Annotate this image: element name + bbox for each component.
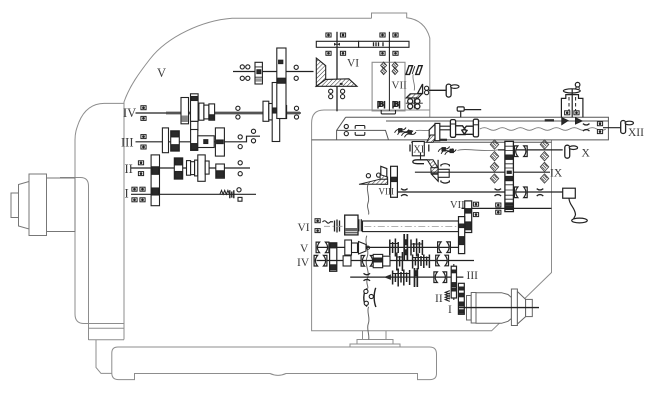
clamp XII bbox=[621, 121, 634, 134]
gears IV right g6-g9 bbox=[263, 83, 287, 142]
bearings shaft I left bbox=[132, 187, 137, 191]
vertical clutch shaft XI top bbox=[561, 82, 583, 117]
head top step and right corner bbox=[372, 13, 430, 117]
strip2 line bbox=[411, 141, 552, 143]
gear block shaft IV g1 bbox=[181, 98, 189, 124]
svg-text:I: I bbox=[125, 187, 129, 201]
center gear cluster V bbox=[390, 234, 423, 261]
shaft III bbox=[136, 136, 261, 142]
bar bearings bbox=[326, 33, 331, 37]
center cluster IV bbox=[397, 252, 430, 271]
vertical shaft II bbox=[453, 264, 455, 300]
funnel + worm XI bbox=[429, 124, 435, 140]
vertical shaft VI bbox=[336, 32, 338, 112]
svg-text:II: II bbox=[435, 293, 443, 305]
svg-text:VI: VI bbox=[298, 222, 310, 234]
bearings shaft II right bbox=[238, 161, 242, 165]
svg-text:II: II bbox=[125, 162, 133, 176]
big gear III g15 bbox=[215, 128, 224, 156]
shaft IV thick spline bbox=[166, 111, 300, 115]
svg-text:XI: XI bbox=[413, 144, 425, 155]
universal joint symbol bbox=[364, 288, 376, 307]
ratchet II bbox=[445, 291, 450, 302]
pedestal under body bbox=[350, 331, 400, 347]
gears IV g3-g5 bbox=[199, 103, 215, 120]
shaft I bbox=[131, 193, 256, 195]
hanger bracket under head bbox=[381, 110, 395, 114]
coupling squiggle 2 bbox=[438, 147, 456, 155]
feed motor bbox=[467, 289, 533, 326]
shaft XII bbox=[603, 127, 621, 129]
svg-text:III: III bbox=[467, 270, 479, 282]
shaft I line over motor bbox=[459, 307, 539, 309]
shaft VII horizontal bbox=[462, 207, 552, 209]
bearings shaft II left bbox=[138, 161, 143, 165]
svg-text:V: V bbox=[157, 66, 166, 80]
shaft III lower bbox=[350, 276, 463, 278]
svg-text:X: X bbox=[582, 148, 591, 160]
gear III g14 bbox=[191, 130, 198, 151]
column outer left edge bbox=[75, 103, 124, 323]
bearings shaft IV mid+right circles bbox=[236, 106, 240, 110]
thick dash in band bbox=[545, 119, 554, 121]
X gear cluster (vertical) bbox=[505, 141, 514, 211]
motor inner ledge line bbox=[60, 178, 89, 341]
svg-text:VII: VII bbox=[450, 200, 465, 211]
band outline bbox=[312, 117, 609, 140]
wavy break line down from bevel VIII bbox=[366, 185, 369, 340]
band right bearing bracket bbox=[583, 124, 590, 131]
column foot lines bbox=[89, 328, 125, 339]
motor M1 bbox=[11, 174, 75, 236]
diamonds in housing bbox=[381, 62, 387, 69]
svg-text:VIII: VIII bbox=[379, 186, 395, 196]
svg-text:IV: IV bbox=[297, 257, 310, 269]
gear VI/V right bbox=[459, 217, 465, 254]
top gear bar bbox=[316, 41, 409, 47]
shaft IV bbox=[136, 112, 302, 114]
gear VIII bbox=[391, 166, 398, 197]
housing VII bbox=[372, 62, 405, 111]
coupling squiggle 1 bbox=[395, 128, 416, 138]
diamonds bbox=[490, 140, 498, 149]
gear V g10 bbox=[255, 62, 262, 84]
shaft VIII bbox=[397, 191, 562, 193]
shaft II bbox=[131, 167, 250, 169]
XI label box bbox=[412, 142, 424, 156]
wavy line in band bbox=[480, 128, 606, 131]
sleeve III bbox=[198, 136, 214, 148]
bevel chain XI->IX bbox=[413, 153, 450, 184]
sleeve II g18 bbox=[198, 155, 209, 181]
lower body outline bbox=[312, 110, 552, 331]
clamp lever K1 bbox=[446, 84, 459, 97]
cluster III bbox=[393, 268, 418, 287]
svg-text:IV: IV bbox=[123, 106, 136, 120]
bevel gear pair VI bbox=[316, 58, 357, 86]
base slab bbox=[112, 347, 437, 380]
vertical shaft VII bbox=[388, 32, 390, 62]
crank handle VIII bbox=[563, 188, 588, 223]
spring on shaft I bbox=[220, 188, 242, 202]
svg-text:|B|: |B| bbox=[392, 99, 400, 108]
tall gear V/IV bbox=[330, 243, 337, 271]
column foot block bbox=[96, 340, 112, 373]
shaft V upper bbox=[233, 71, 314, 73]
head top and left swoop to column front bbox=[124, 18, 372, 339]
svg-text:VI: VI bbox=[347, 58, 359, 70]
bearings shaft V bbox=[240, 65, 244, 69]
bolt on band bbox=[457, 107, 481, 117]
gear VII vertical bbox=[465, 201, 472, 233]
gear II g19 bbox=[216, 164, 225, 178]
coupling II bbox=[187, 160, 198, 176]
labels bbox=[121, 58, 407, 201]
band left bearings bbox=[344, 124, 348, 128]
svg-text:IX: IX bbox=[550, 168, 563, 180]
shaft VI: bearings, spring, worm box, leadscrew bbox=[315, 219, 320, 223]
svg-text:III: III bbox=[121, 136, 134, 150]
svg-text:|B|: |B| bbox=[377, 99, 385, 108]
lever quads top of housing bbox=[406, 66, 422, 75]
big gear V g11 bbox=[277, 48, 286, 119]
shaft IV lower bbox=[317, 260, 475, 262]
bearings shaft III right bbox=[238, 135, 242, 139]
cluster V left bbox=[345, 240, 370, 255]
svg-text:XII: XII bbox=[628, 127, 644, 139]
brackets right of X cluster bbox=[514, 146, 527, 157]
shaft X bbox=[498, 149, 563, 151]
clamp X bbox=[565, 145, 578, 158]
tall gear block I/II g16 bbox=[151, 155, 159, 206]
S-curve cable bbox=[413, 74, 415, 90]
machine outline bbox=[60, 13, 552, 380]
bearings shaft IV left bbox=[141, 106, 146, 110]
gear stack on feed shaft I bbox=[458, 283, 464, 314]
svg-text:I: I bbox=[448, 304, 452, 316]
bracket VIII small bbox=[401, 189, 408, 196]
shaft IX bbox=[415, 171, 550, 173]
hatched quad + 4-circle clutch bbox=[406, 94, 422, 98]
bearings shaft III left bbox=[141, 135, 146, 139]
gear III g12 bbox=[162, 128, 168, 153]
svg-text:V: V bbox=[300, 243, 309, 255]
bevel flag + clutch in housing bbox=[418, 84, 423, 94]
gear shifter IV g2 bbox=[191, 94, 199, 149]
bevel pair VIII bbox=[359, 166, 388, 184]
svg-text:VII: VII bbox=[392, 80, 408, 92]
shaft V lower bbox=[317, 246, 459, 248]
gear III g13 bbox=[171, 131, 180, 151]
gear II g17 bbox=[174, 158, 182, 179]
